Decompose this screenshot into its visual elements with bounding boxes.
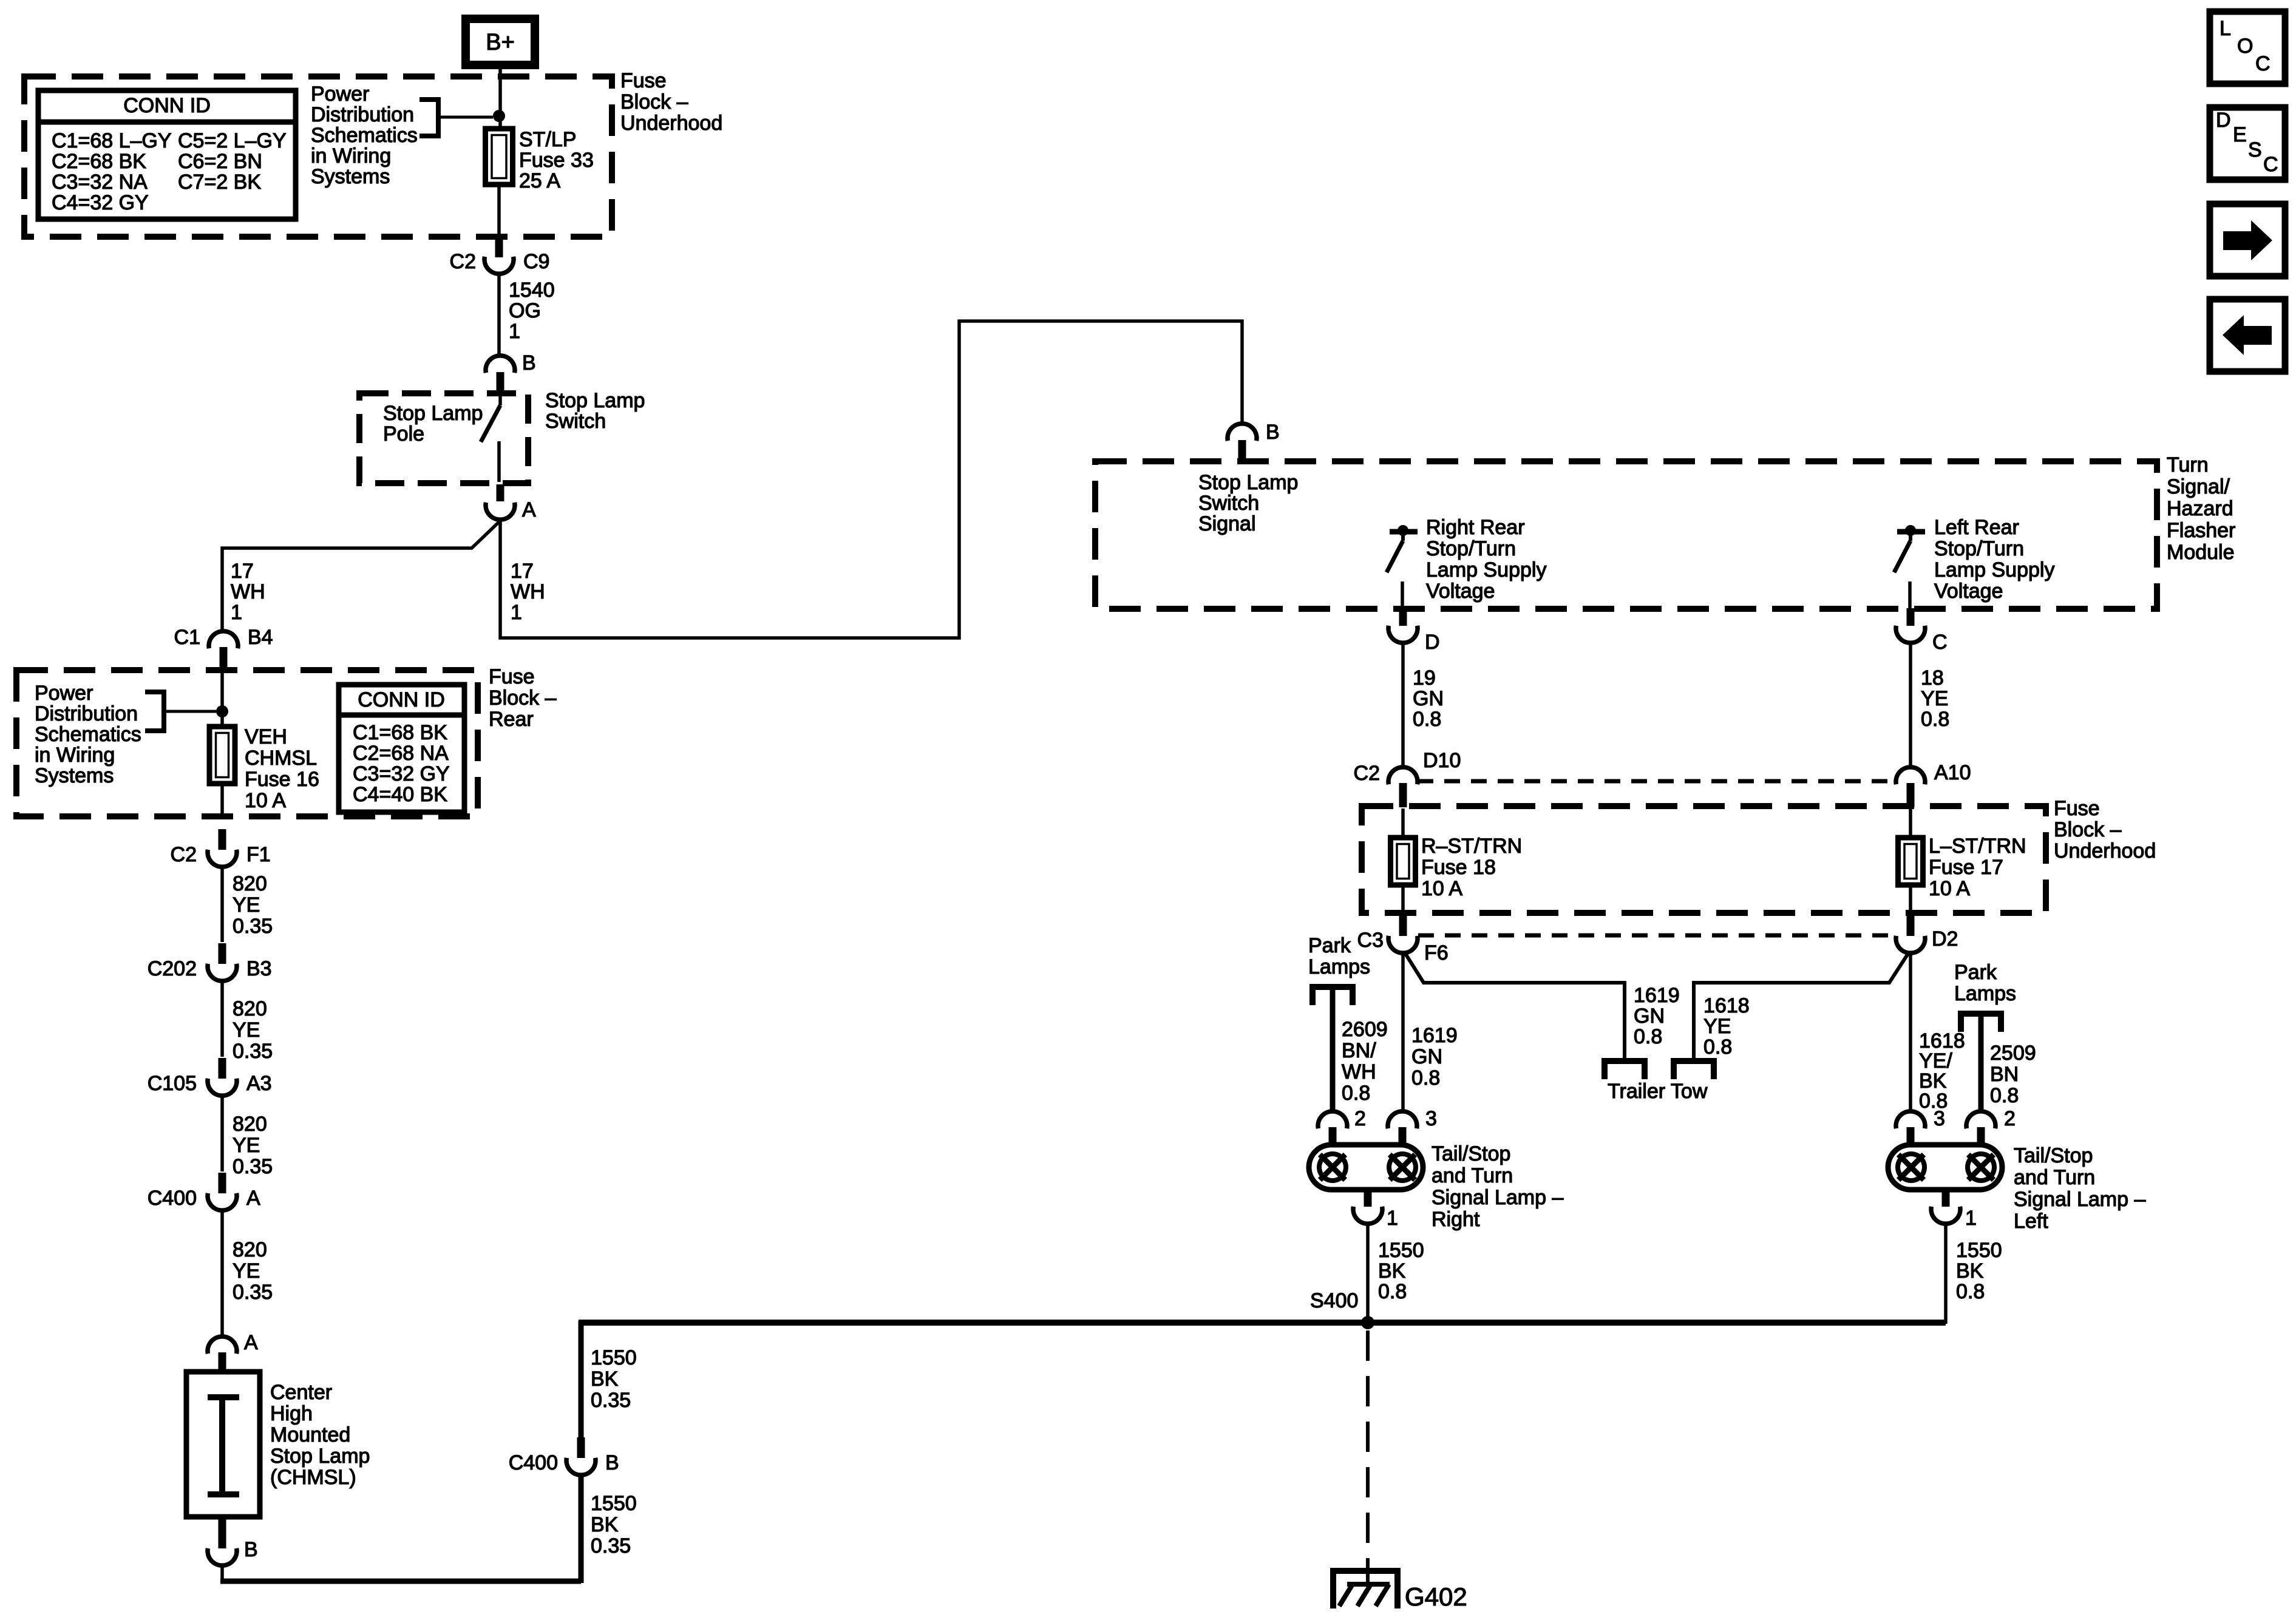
svg-text:Park: Park (1954, 961, 1997, 984)
svg-text:Fuse 33: Fuse 33 (519, 149, 594, 172)
svg-text:BK: BK (1378, 1259, 1406, 1283)
svg-text:B: B (244, 1538, 258, 1561)
svg-text:WH: WH (1342, 1060, 1376, 1083)
svg-text:3: 3 (1934, 1107, 1945, 1130)
svg-text:B3: B3 (246, 957, 272, 980)
svg-text:Stop Lamp: Stop Lamp (1198, 471, 1298, 494)
svg-text:Underhood: Underhood (2054, 839, 2156, 863)
svg-text:Center: Center (270, 1381, 332, 1404)
svg-text:10 A: 10 A (245, 789, 286, 812)
svg-text:1550: 1550 (591, 1346, 637, 1369)
svg-text:C2: C2 (450, 250, 476, 273)
svg-text:Pole: Pole (383, 422, 424, 446)
svg-text:D2: D2 (1932, 927, 1958, 951)
svg-text:Hazard: Hazard (2167, 497, 2233, 520)
svg-text:0.35: 0.35 (233, 1040, 273, 1063)
svg-text:Lamp Supply: Lamp Supply (1426, 558, 1546, 581)
svg-text:0.35: 0.35 (591, 1389, 631, 1412)
svg-text:1: 1 (509, 320, 520, 343)
svg-text:0.35: 0.35 (591, 1534, 631, 1558)
svg-text:Left Rear: Left Rear (1934, 516, 2019, 539)
svg-text:C3: C3 (1357, 929, 1384, 952)
svg-text:A: A (522, 498, 536, 521)
svg-text:17: 17 (511, 560, 534, 583)
svg-text:YE: YE (233, 893, 260, 917)
svg-text:BK: BK (591, 1513, 619, 1536)
svg-text:10 A: 10 A (1929, 877, 1970, 900)
svg-text:C2=68 BK: C2=68 BK (52, 150, 146, 173)
svg-text:L–ST/TRN: L–ST/TRN (1929, 835, 2026, 858)
svg-text:Fuse: Fuse (620, 69, 667, 92)
svg-text:Fuse: Fuse (489, 665, 535, 688)
svg-text:Power: Power (35, 682, 93, 705)
svg-text:F6: F6 (1424, 941, 1449, 964)
svg-text:19: 19 (1413, 666, 1436, 690)
svg-text:G402: G402 (1405, 1582, 1467, 1611)
svg-text:CONN ID: CONN ID (123, 94, 211, 117)
svg-text:Signal Lamp –: Signal Lamp – (2014, 1188, 2145, 1211)
svg-text:O: O (2237, 35, 2253, 58)
svg-text:0.8: 0.8 (1921, 708, 1949, 731)
svg-text:BN/: BN/ (1342, 1039, 1376, 1062)
svg-text:0.8: 0.8 (1703, 1036, 1732, 1059)
svg-text:Signal/: Signal/ (2167, 475, 2230, 498)
svg-text:Rear: Rear (489, 708, 534, 731)
svg-text:820: 820 (233, 997, 267, 1020)
svg-text:Lamps: Lamps (1954, 982, 2016, 1005)
svg-text:Fuse 17: Fuse 17 (1929, 856, 2003, 879)
svg-text:Stop Lamp: Stop Lamp (383, 402, 483, 425)
svg-text:820: 820 (233, 872, 267, 895)
svg-text:820: 820 (233, 1113, 267, 1136)
svg-text:Voltage: Voltage (1426, 580, 1495, 603)
svg-text:0.8: 0.8 (1990, 1084, 2019, 1107)
svg-text:Stop Lamp: Stop Lamp (270, 1445, 370, 1468)
svg-text:820: 820 (233, 1238, 267, 1261)
svg-text:D: D (1425, 631, 1440, 654)
svg-text:17: 17 (231, 560, 254, 583)
svg-text:YE: YE (233, 1134, 260, 1157)
svg-text:Right: Right (1432, 1208, 1480, 1231)
svg-text:C1: C1 (174, 626, 200, 649)
svg-text:GN: GN (1634, 1005, 1665, 1028)
svg-text:2609: 2609 (1342, 1018, 1388, 1041)
svg-text:1550: 1550 (591, 1492, 637, 1515)
svg-text:0.8: 0.8 (1342, 1082, 1370, 1105)
svg-text:0.8: 0.8 (1411, 1066, 1440, 1090)
svg-text:C400: C400 (509, 1451, 558, 1474)
svg-text:High: High (270, 1402, 313, 1425)
svg-text:and Turn: and Turn (1432, 1164, 1513, 1187)
svg-text:2: 2 (2004, 1107, 2016, 1130)
svg-text:0.8: 0.8 (1413, 708, 1441, 731)
svg-text:A: A (244, 1331, 258, 1354)
svg-text:S: S (2248, 138, 2262, 161)
svg-text:Distribution: Distribution (35, 702, 138, 725)
svg-text:E: E (2233, 123, 2247, 146)
svg-text:Systems: Systems (35, 764, 114, 787)
svg-text:B: B (1266, 421, 1280, 444)
svg-text:C5=2 L–GY: C5=2 L–GY (178, 129, 287, 152)
svg-text:Power: Power (311, 83, 369, 106)
svg-text:Switch: Switch (1198, 492, 1259, 515)
svg-text:Left: Left (2014, 1210, 2048, 1233)
svg-text:C1=68 L–GY: C1=68 L–GY (52, 129, 172, 152)
svg-text:D10: D10 (1423, 749, 1461, 772)
svg-text:Switch: Switch (545, 410, 606, 433)
svg-text:A: A (246, 1187, 260, 1210)
svg-text:Lamps: Lamps (1308, 955, 1370, 978)
svg-text:B: B (605, 1451, 619, 1474)
svg-text:Stop/Turn: Stop/Turn (1934, 537, 2024, 560)
svg-text:YE: YE (1921, 687, 1948, 710)
svg-text:Park: Park (1308, 934, 1351, 957)
svg-text:C202: C202 (148, 957, 197, 980)
svg-text:1540: 1540 (509, 279, 555, 302)
svg-text:Fuse 16: Fuse 16 (245, 768, 319, 791)
svg-text:1618: 1618 (1703, 994, 1750, 1017)
svg-text:Block –: Block – (2054, 818, 2122, 841)
svg-text:WH: WH (511, 580, 545, 603)
svg-text:YE: YE (1703, 1015, 1731, 1038)
svg-text:Systems: Systems (311, 165, 390, 188)
svg-text:Block –: Block – (620, 90, 688, 114)
svg-text:Schematics: Schematics (35, 723, 141, 746)
svg-text:C1=68 BK: C1=68 BK (353, 721, 447, 744)
svg-text:Tail/Stop: Tail/Stop (2014, 1144, 2093, 1167)
svg-text:B: B (522, 351, 536, 375)
svg-text:CHMSL: CHMSL (245, 747, 317, 770)
svg-text:1: 1 (1387, 1207, 1398, 1230)
svg-text:C2: C2 (1354, 762, 1380, 785)
svg-text:GN: GN (1413, 687, 1444, 710)
svg-text:C7=2 BK: C7=2 BK (178, 171, 261, 194)
svg-text:C4=32 GY: C4=32 GY (52, 191, 149, 214)
svg-text:and Turn: and Turn (2014, 1166, 2095, 1189)
svg-text:Voltage: Voltage (1934, 580, 2003, 603)
svg-text:Lamp Supply: Lamp Supply (1934, 558, 2054, 581)
svg-text:YE: YE (233, 1019, 260, 1042)
svg-text:ST/LP: ST/LP (519, 128, 576, 151)
svg-text:1: 1 (231, 601, 242, 624)
svg-text:0.8: 0.8 (1378, 1280, 1407, 1303)
svg-text:Turn: Turn (2167, 453, 2209, 476)
svg-text:25 A: 25 A (519, 169, 560, 192)
svg-text:C2: C2 (171, 843, 197, 866)
svg-text:Distribution: Distribution (311, 103, 414, 126)
svg-text:Right Rear: Right Rear (1426, 516, 1525, 539)
svg-text:in Wiring: in Wiring (311, 144, 391, 168)
svg-text:Schematics: Schematics (311, 124, 418, 147)
svg-text:L: L (2220, 17, 2231, 40)
svg-text:R–ST/TRN: R–ST/TRN (1421, 835, 1522, 858)
svg-text:WH: WH (231, 580, 265, 603)
svg-text:BN: BN (1990, 1063, 2019, 1086)
svg-text:3: 3 (1425, 1107, 1437, 1130)
svg-text:Signal: Signal (1198, 512, 1256, 535)
svg-text:Stop/Turn: Stop/Turn (1426, 537, 1516, 560)
svg-text:Block –: Block – (489, 686, 557, 710)
svg-text:1619: 1619 (1411, 1024, 1458, 1047)
svg-text:in Wiring: in Wiring (35, 744, 115, 767)
svg-text:B+: B+ (486, 30, 515, 55)
svg-text:18: 18 (1921, 666, 1944, 690)
svg-text:D: D (2216, 109, 2231, 132)
svg-text:Underhood: Underhood (620, 112, 722, 135)
svg-text:Flasher: Flasher (2167, 519, 2235, 542)
svg-text:Tail/Stop: Tail/Stop (1432, 1142, 1510, 1165)
svg-text:C9: C9 (523, 250, 549, 273)
svg-text:0.35: 0.35 (233, 1281, 273, 1304)
svg-text:A3: A3 (246, 1072, 272, 1095)
svg-text:C3=32 NA: C3=32 NA (52, 171, 148, 194)
svg-text:0.35: 0.35 (233, 1155, 273, 1178)
svg-text:(CHMSL): (CHMSL) (270, 1466, 356, 1489)
svg-text:10 A: 10 A (1421, 877, 1462, 900)
svg-text:Fuse 18: Fuse 18 (1421, 856, 1496, 879)
svg-text:2: 2 (1354, 1107, 1366, 1130)
svg-text:1550: 1550 (1956, 1239, 2002, 1262)
svg-text:C: C (2263, 153, 2278, 176)
svg-text:YE: YE (233, 1259, 260, 1283)
svg-text:1: 1 (511, 601, 522, 624)
svg-text:0.35: 0.35 (233, 915, 273, 938)
svg-text:1: 1 (1965, 1207, 1977, 1230)
svg-text:Stop Lamp: Stop Lamp (545, 389, 645, 412)
svg-text:A10: A10 (1934, 761, 1971, 784)
svg-text:C400: C400 (148, 1187, 197, 1210)
svg-text:C: C (1932, 631, 1948, 654)
svg-text:B4: B4 (248, 626, 273, 649)
svg-text:C3=32 GY: C3=32 GY (353, 762, 450, 785)
svg-text:0.8: 0.8 (1634, 1025, 1662, 1048)
svg-text:Module: Module (2167, 541, 2235, 564)
svg-text:C105: C105 (148, 1072, 197, 1095)
svg-text:F1: F1 (246, 843, 271, 866)
svg-text:C4=40 BK: C4=40 BK (353, 783, 447, 806)
svg-text:CONN ID: CONN ID (358, 688, 445, 711)
svg-text:Fuse: Fuse (2054, 797, 2100, 820)
svg-text:VEH: VEH (245, 725, 287, 748)
svg-text:C2=68 NA: C2=68 NA (353, 742, 449, 765)
svg-text:1619: 1619 (1634, 984, 1680, 1007)
svg-text:2509: 2509 (1990, 1042, 2036, 1065)
svg-text:BK: BK (1956, 1259, 1984, 1283)
svg-text:BK: BK (591, 1368, 619, 1391)
svg-text:1550: 1550 (1378, 1239, 1424, 1262)
svg-text:Mounted: Mounted (270, 1423, 350, 1446)
svg-text:Trailer Tow: Trailer Tow (1608, 1080, 1708, 1103)
svg-text:S400: S400 (1310, 1289, 1358, 1312)
svg-text:C: C (2255, 52, 2271, 75)
svg-text:C6=2 BN: C6=2 BN (178, 150, 262, 173)
svg-text:GN: GN (1411, 1045, 1442, 1068)
svg-text:0.8: 0.8 (1956, 1280, 1985, 1303)
svg-text:OG: OG (509, 299, 541, 322)
svg-text:Signal Lamp –: Signal Lamp – (1432, 1186, 1563, 1209)
